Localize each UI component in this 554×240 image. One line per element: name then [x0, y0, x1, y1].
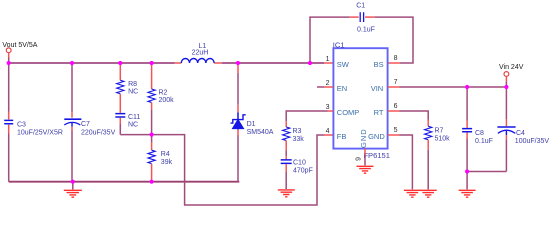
svg-text:EN: EN — [337, 84, 347, 93]
svg-text:8: 8 — [394, 55, 398, 62]
svg-text:C4: C4 — [516, 130, 525, 137]
IC IC1 FP6151 — [333, 48, 387, 148]
ground (bottom bus) — [72, 182, 74, 190]
svg-text:Vin 24V: Vin 24V — [499, 64, 524, 71]
junction R4 bottom — [150, 180, 154, 184]
svg-text:5: 5 — [394, 127, 398, 134]
wire top bus left — [9, 62, 175, 64]
resistor R2 — [151, 63, 153, 89]
svg-text:200k: 200k — [159, 97, 175, 104]
svg-text:GND: GND — [368, 132, 385, 141]
junction Vin/C4 — [504, 85, 508, 89]
ground (pin 9) — [357, 166, 374, 173]
svg-text:1: 1 — [326, 56, 330, 63]
svg-text:470pF: 470pF — [293, 167, 313, 174]
svg-text:SM540A: SM540A — [247, 129, 274, 136]
capacitor C8 — [466, 87, 468, 121]
svg-text:RT: RT — [374, 108, 384, 117]
ground (pin 5) — [404, 190, 421, 197]
svg-text:GND: GND — [359, 128, 368, 148]
svg-text:R4: R4 — [161, 151, 170, 158]
svg-text:R3: R3 — [293, 128, 302, 135]
svg-text:C10: C10 — [293, 159, 306, 166]
svg-text:SW: SW — [337, 60, 350, 69]
svg-text:C1: C1 — [356, 2, 365, 9]
svg-text:4: 4 — [326, 128, 330, 135]
svg-text:0.1uF: 0.1uF — [357, 27, 375, 34]
svg-text:VIN: VIN — [371, 84, 384, 93]
svg-text:220uF/35V: 220uF/35V — [81, 129, 116, 136]
capacitor C1 — [350, 16, 359, 18]
wire GND pin 5 — [388, 134, 400, 136]
svg-text:6: 6 — [394, 103, 398, 110]
resistor R4 — [151, 135, 153, 143]
wire C1 loop right to BS — [375, 17, 413, 63]
wire bottom ground bus — [9, 181, 240, 183]
capacitor C11 — [119, 94, 121, 113]
junction ground bus — [71, 180, 75, 184]
svg-text:R2: R2 — [159, 89, 168, 96]
wire port Vout stub — [8, 53, 10, 58]
junction C1/SW — [308, 61, 312, 65]
svg-text:NC: NC — [128, 89, 138, 96]
svg-text:3: 3 — [326, 104, 330, 111]
port Vout — [6, 48, 11, 53]
svg-text:D1: D1 — [247, 121, 256, 128]
ground (C8) — [459, 190, 476, 197]
capacitor C7 — [71, 63, 73, 112]
svg-text:FB: FB — [337, 132, 347, 141]
svg-text:COMP: COMP — [337, 108, 360, 117]
wire GND pin 9 — [364, 148, 366, 155]
junction FB node — [150, 133, 154, 137]
svg-text:R8: R8 — [128, 81, 137, 88]
capacitor C3 — [8, 63, 10, 112]
wire C8/C4 return — [467, 171, 506, 173]
svg-text:R7: R7 — [435, 128, 444, 135]
svg-text:C11: C11 — [128, 114, 140, 121]
resistor R7 — [427, 120, 429, 127]
ground (R7) — [420, 190, 437, 197]
junction Vout/C3 — [7, 61, 11, 65]
wire VIN pin 7 — [388, 86, 400, 88]
svg-text:510k: 510k — [435, 136, 451, 143]
svg-text:0.1uF: 0.1uF — [475, 138, 493, 145]
svg-text:Vout 5V/5A: Vout 5V/5A — [2, 42, 37, 49]
svg-text:IC1: IC1 — [333, 41, 345, 50]
wire C1 loop left — [310, 17, 350, 63]
wire RT pin 6 — [388, 110, 400, 112]
svg-text:39k: 39k — [161, 159, 173, 166]
svg-text:C7: C7 — [81, 121, 90, 128]
junction C8 bottom — [465, 169, 469, 173]
capacitor C4 — [505, 87, 507, 119]
svg-text:33k: 33k — [293, 136, 305, 143]
svg-text:7: 7 — [394, 79, 398, 86]
junction D1 top — [236, 61, 240, 65]
svg-text:9: 9 — [356, 157, 363, 161]
inductor L1 — [175, 62, 222, 64]
capacitor C10 — [285, 156, 287, 159]
resistor R8 — [119, 63, 121, 80]
ground (C10) — [278, 190, 295, 197]
junction C8 top — [465, 85, 469, 89]
wire FB node — [120, 135, 324, 205]
wire COMP pin 3 — [328, 110, 334, 112]
junction R8 top — [118, 61, 122, 65]
svg-text:2: 2 — [326, 80, 330, 87]
svg-text:NC: NC — [128, 122, 138, 129]
svg-text:BS: BS — [374, 60, 384, 69]
svg-text:FP6151: FP6151 — [363, 151, 390, 160]
svg-text:100uF/35V: 100uF/35V — [515, 138, 550, 145]
wire EN pin 2 — [317, 86, 324, 88]
port Vin — [504, 72, 509, 77]
svg-text:C8: C8 — [475, 130, 484, 137]
junction C7 top — [70, 61, 74, 65]
wire top bus right (SW net) — [222, 62, 324, 64]
svg-text:C3: C3 — [17, 121, 26, 128]
svg-text:10uF/25V/X5R: 10uF/25V/X5R — [17, 129, 63, 136]
diode D1 — [237, 63, 239, 73]
junction R2 top — [150, 61, 154, 65]
svg-text:22uH: 22uH — [192, 50, 209, 57]
resistor R3 — [285, 121, 287, 127]
